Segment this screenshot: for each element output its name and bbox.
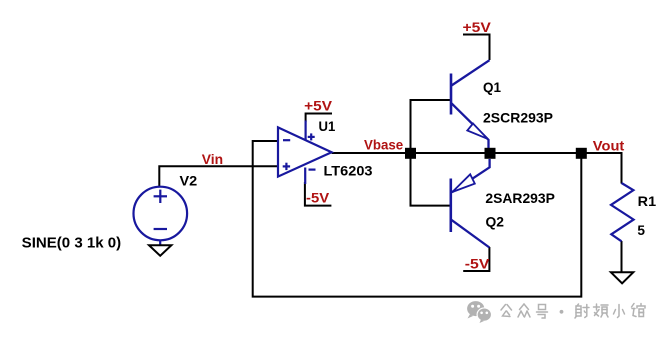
char gong [501, 305, 512, 317]
wire output rail: op-amp output to Vbase node to emitters to Vout node to R1 [332, 153, 622, 184]
resistor R1 [611, 183, 634, 241]
svg-text:Vin: Vin [202, 151, 223, 167]
char xiao [614, 305, 625, 318]
svg-text:+5V: +5V [463, 19, 492, 35]
svg-text:+5V: +5V [304, 97, 333, 113]
svg-text:Vout: Vout [593, 137, 625, 153]
svg-text:Q1: Q1 [483, 79, 501, 95]
transistor Q2 [451, 159, 490, 248]
node Vout junction [576, 148, 587, 159]
char hao [537, 305, 548, 319]
svg-text:Q2: Q2 [486, 214, 505, 230]
wire +5V flag to Q1 collector [463, 35, 490, 61]
wire R1 bottom to ground [621, 241, 623, 272]
transistor Q1 [451, 60, 490, 148]
op-amp U1 [278, 121, 332, 185]
watermark text 公众号 · 射频小馆 [501, 304, 645, 319]
ground below V2 [149, 245, 171, 256]
node emitter junction [485, 148, 496, 159]
svg-text:-5V: -5V [465, 256, 490, 272]
char pin [594, 304, 609, 317]
ground below R1 [611, 272, 633, 283]
svg-text:-5V: -5V [306, 190, 330, 206]
svg-text:SINE(0 3 1k 0): SINE(0 3 1k 0) [22, 234, 122, 251]
wire base line: Q1 base to Q2 base with stubs [411, 100, 452, 206]
wire +5V flag to op-amp positive supply pin [306, 114, 332, 123]
svg-text:U1: U1 [319, 118, 336, 134]
svg-text:2SAR293P: 2SAR293P [485, 190, 555, 206]
svg-text:2SCR293P: 2SCR293P [483, 110, 553, 126]
separator dot [560, 310, 564, 314]
wire Q2 collector to -5V flag [463, 247, 489, 271]
svg-text:Vbase: Vbase [364, 136, 403, 152]
char zhong [518, 304, 530, 317]
wire feedback: op-amp inverting input down, across bottom, up to Vout node [253, 141, 582, 297]
svg-text:5: 5 [637, 222, 645, 238]
node Vbase junction [405, 148, 416, 159]
watermark wechat icon [467, 301, 492, 323]
wire V2 top to op-amp noninverting input (Vin net) [159, 166, 278, 187]
char guan [632, 304, 646, 317]
wire op-amp negative supply pin to -5V flag [305, 182, 332, 206]
svg-text:R1: R1 [638, 193, 657, 209]
voltage source V2 [134, 187, 188, 246]
char she [575, 304, 589, 318]
svg-text:V2: V2 [180, 173, 198, 189]
svg-text:LT6203: LT6203 [324, 163, 373, 179]
